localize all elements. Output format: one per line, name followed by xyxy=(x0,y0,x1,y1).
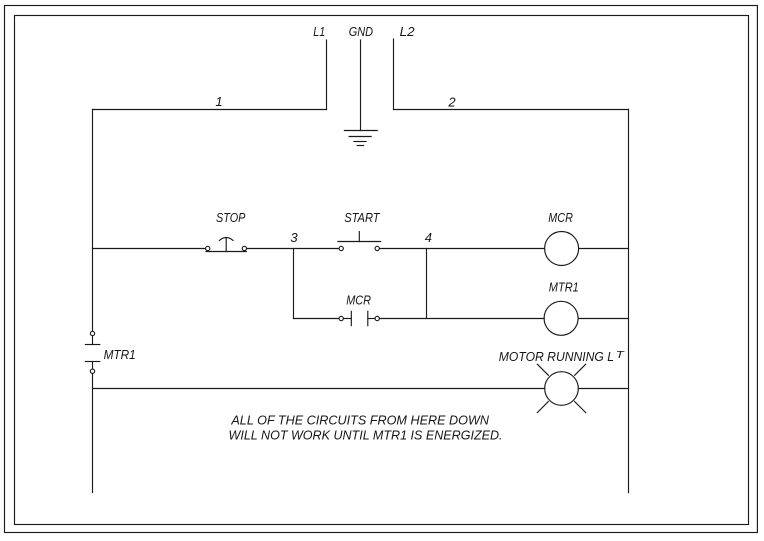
svg-text:MTR1: MTR1 xyxy=(549,280,579,295)
svg-text:L1: L1 xyxy=(313,24,325,39)
svg-text:MTR1: MTR1 xyxy=(104,347,136,362)
svg-text:T: T xyxy=(616,350,625,361)
svg-text:MCR: MCR xyxy=(346,292,371,307)
svg-text:START: START xyxy=(344,210,380,225)
svg-text:GND: GND xyxy=(349,24,373,39)
svg-text:3: 3 xyxy=(290,230,298,245)
svg-text:MCR: MCR xyxy=(548,210,573,225)
svg-text:STOP: STOP xyxy=(216,210,246,225)
svg-text:ALL OF THE CIRCUITS FROM HERE: ALL OF THE CIRCUITS FROM HERE DOWN xyxy=(230,412,489,427)
svg-text:4: 4 xyxy=(425,230,432,245)
svg-text:WILL NOT WORK UNTIL MTR1 IS EN: WILL NOT WORK UNTIL MTR1 IS ENERGIZED. xyxy=(229,428,503,443)
svg-text:2: 2 xyxy=(447,95,456,110)
svg-text:MOTOR RUNNING L: MOTOR RUNNING L xyxy=(499,349,614,364)
svg-text:L2: L2 xyxy=(400,24,416,39)
svg-text:1: 1 xyxy=(215,94,222,109)
